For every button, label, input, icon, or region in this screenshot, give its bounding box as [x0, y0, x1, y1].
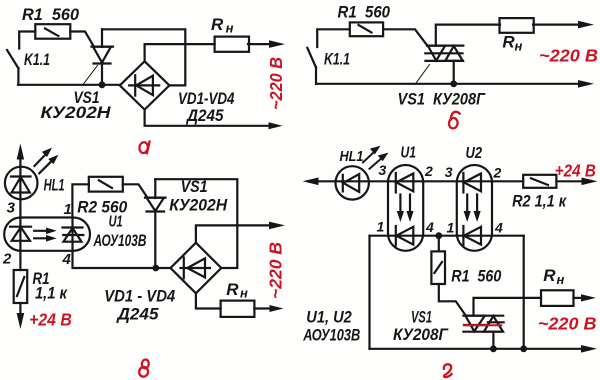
svg-text:КУ208Г: КУ208Г	[393, 325, 449, 344]
svg-text:+24 В: +24 В	[29, 310, 72, 330]
leader line VS1 (circuit a)	[83, 66, 98, 85]
optocoupler U1 light arrows (circuit v)	[34, 228, 57, 242]
svg-text:Д245: Д245	[115, 305, 159, 324]
label a (red)	[139, 142, 150, 154]
svg-text:н: н	[515, 39, 523, 54]
resistor R1 (circuit a)	[35, 24, 70, 39]
svg-text:R1 560: R1 560	[22, 5, 80, 24]
wire bridge bottom out with arrow (circuit a)	[145, 110, 283, 130]
resistor R1 vertical (circuit g)	[431, 236, 445, 284]
resistor R1 (circuit b)	[350, 22, 383, 36]
resistor R1 vertical (circuit v)	[14, 270, 28, 303]
node: junction dot triac to bottom rail (circuit g)	[490, 345, 497, 352]
svg-text:2: 2	[493, 165, 502, 181]
wire bottom from switch to bridge (circuit a)	[18, 84, 120, 86]
wire gate from R1 to thyristor (circuit a)	[70, 32, 93, 47]
wire gate R2 to VS1 (circuit v)	[123, 184, 147, 197]
svg-text:2: 2	[424, 163, 433, 179]
optocoupler U1 body (circuit g)	[388, 165, 423, 251]
svg-text:~220 В: ~220 В	[266, 57, 286, 110]
svg-text:2: 2	[2, 251, 12, 268]
wire bottom rail with arrow (circuit g)	[370, 345, 598, 353]
triac VS1 (circuit b)	[425, 46, 463, 61]
svg-text:н: н	[240, 286, 248, 301]
svg-text:R2 1,1 к: R2 1,1 к	[512, 192, 567, 211]
diode bridge VD1-VD4 (circuit v)	[171, 243, 222, 294]
svg-text:R: R	[211, 15, 224, 34]
optocoupler U1 photodiode (circuit g)	[396, 226, 414, 246]
label g (red)	[444, 364, 452, 377]
svg-text:КУ202Н: КУ202Н	[41, 103, 112, 122]
optocoupler U2 LED (circuit g)	[463, 173, 481, 193]
node: junction dot VS1 cathode (circuit v)	[152, 265, 159, 272]
svg-text:1: 1	[377, 219, 385, 235]
wire triac MT2 up to load (circuit b)	[436, 25, 500, 46]
wire R1 to triac gate (circuit g)	[439, 284, 466, 316]
node: junction dot between U1 and U2 (circuit g)	[435, 232, 442, 239]
node: junction dot right side to bottom rail (circuit g)	[520, 345, 527, 352]
svg-text:АОУ103В: АОУ103В	[93, 231, 147, 250]
svg-text:HL1: HL1	[44, 176, 65, 195]
svg-text:VD1-VD4: VD1-VD4	[178, 89, 235, 108]
red mark line through triac (circuit g)	[464, 324, 501, 326]
load resistor Rn (circuit v)	[221, 301, 255, 317]
thyristor VS1 (circuit a)	[92, 29, 114, 85]
optocoupler U1 LED (circuit g)	[396, 173, 414, 193]
svg-text:R: R	[226, 280, 239, 299]
wire arrow load out (circuit a)	[248, 40, 285, 48]
wire bottom mains with arrow (circuit b)	[317, 80, 594, 88]
optocoupler U1 photothyristor (circuit v)	[63, 218, 84, 252]
svg-text:K1.1: K1.1	[24, 51, 50, 69]
optocoupler U1 light arrows (circuit g)	[397, 195, 414, 223]
svg-text:4: 4	[62, 251, 72, 268]
svg-text:~220 В: ~220 В	[539, 46, 598, 66]
svg-text:R: R	[543, 266, 556, 285]
svg-text:н: н	[226, 21, 234, 36]
optocoupler U2 light arrows (circuit g)	[464, 195, 481, 223]
triac VS1 (circuit g)	[463, 316, 503, 332]
wire bridge top to load (circuit a)	[145, 44, 215, 61]
wire anode top (circuit a)	[102, 29, 185, 85]
thyristor VS1 (circuit v)	[145, 179, 166, 268]
wire triac MT1 down (circuit g)	[492, 332, 494, 349]
svg-text:1: 1	[447, 220, 455, 236]
wire pin1 up to R2 (circuit v)	[72, 184, 88, 217]
diode bridge VD1-VD4 (circuit a)	[120, 61, 170, 109]
optocoupler U2 photodiode (circuit g)	[463, 226, 481, 246]
load resistor Rn (circuit a)	[215, 37, 249, 52]
wire arrow load out (circuit v)	[254, 305, 283, 312]
svg-text:4: 4	[494, 220, 503, 236]
svg-text:K1.1: K1.1	[324, 51, 350, 69]
wire resistor left to switch (circuit b)	[317, 29, 350, 47]
svg-text:R: R	[502, 33, 515, 52]
resistor R2 (circuit v)	[89, 177, 123, 192]
wire gate from R1 to triac (circuit b)	[383, 29, 427, 46]
load resistor Rn (circuit g)	[541, 290, 574, 306]
LED HL1 (circuit g)	[336, 166, 369, 199]
optocoupler U2 body (circuit g)	[457, 165, 492, 251]
wire pin4 to bridge (circuit v)	[73, 251, 171, 268]
svg-text:+24 В: +24 В	[555, 161, 596, 181]
svg-text:КУ202Н: КУ202Н	[169, 196, 228, 215]
resistor R2 (circuit g)	[523, 175, 556, 188]
svg-text:HL1: HL1	[340, 148, 364, 165]
light arrows HL1 (circuit v)	[34, 148, 58, 174]
svg-text:R1 560: R1 560	[451, 267, 501, 286]
load resistor Rn (circuit b)	[500, 18, 534, 33]
svg-text:АОУ103В: АОУ103В	[302, 326, 360, 345]
light arrows HL1 (circuit g)	[363, 146, 388, 169]
svg-text:н: н	[557, 272, 565, 287]
wire pin2 to R1 (circuit v)	[19, 251, 21, 270]
svg-text:3: 3	[7, 200, 16, 217]
wire arrow up top (circuit v)	[17, 144, 24, 168]
svg-text:~220 В: ~220 В	[266, 242, 286, 299]
LED HL1 (circuit v)	[5, 167, 38, 218]
node: junction dot thyristor cathode (circuit a)	[99, 81, 106, 88]
svg-text:R2 560: R2 560	[77, 198, 127, 217]
wire right side down from U2 pin4 (circuit g)	[523, 236, 525, 349]
label b (red)	[448, 112, 459, 129]
svg-text:VS1 КУ208Г: VS1 КУ208Г	[398, 90, 487, 109]
svg-text:~220 В: ~220 В	[538, 314, 597, 334]
wire VS1 anode loop (circuit v)	[155, 179, 237, 268]
label v (red)	[139, 359, 150, 377]
svg-text:Д245: Д245	[185, 106, 224, 125]
wire top rail with left arrow (circuit g)	[303, 178, 524, 186]
svg-text:1: 1	[64, 201, 72, 218]
wire arrow down +24V (circuit v)	[17, 303, 25, 329]
wire arrow +24V (circuit g)	[556, 178, 597, 186]
switch K1.1 (circuit a)	[7, 50, 18, 85]
svg-text:U1, U2: U1, U2	[306, 308, 352, 327]
optocoupler U1 body (circuit v)	[4, 218, 90, 251]
wire Rn rail to triac MT2 (circuit g)	[474, 298, 542, 316]
svg-text:VS1: VS1	[411, 308, 432, 327]
wire bridge bottom to Rn (circuit v)	[196, 293, 221, 308]
svg-text:3: 3	[445, 164, 453, 180]
wire arrow load out (circuit g)	[574, 294, 597, 301]
leader line VS1 (circuit b)	[415, 65, 429, 85]
svg-text:U1: U1	[401, 145, 417, 162]
svg-text:R1 560: R1 560	[338, 3, 391, 22]
svg-text:U2: U2	[466, 145, 483, 162]
svg-text:VD1 - VD4: VD1 - VD4	[104, 287, 175, 306]
optocoupler U1 LED (circuit v)	[10, 218, 31, 252]
svg-text:1,1 к: 1,1 к	[35, 284, 68, 303]
wire resistor left to switch (circuit a)	[19, 32, 35, 49]
wire triac MT1 down (circuit b)	[453, 61, 455, 84]
svg-text:4: 4	[425, 219, 434, 235]
wire left side down (circuit g)	[368, 236, 370, 349]
node: junction dot triac to mains (circuit b)	[450, 80, 457, 87]
wire bridge top to load arrow (circuit v)	[196, 222, 285, 243]
wire lower rail pins 1-4 (circuit g)	[370, 235, 524, 237]
switch K1.1 (circuit b)	[307, 48, 316, 84]
wire arrow load out (circuit b)	[533, 21, 594, 29]
svg-text:3: 3	[379, 162, 387, 178]
